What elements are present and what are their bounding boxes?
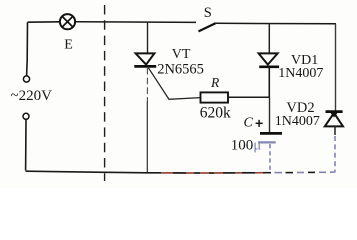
capacitor C plates (258, 133, 282, 142)
wire resistor to node (228, 96, 270, 98)
wire bottom left solid (26, 171, 161, 173)
wire VD1 branch from top (268, 24, 270, 53)
wire VD2 to bottom (dashed purple) (334, 136, 336, 172)
wire left column lower (25, 119, 27, 170)
dashed boundary line (104, 5, 106, 181)
svg-text:2N6565: 2N6565 (157, 61, 204, 77)
svg-text:C: C (244, 116, 254, 131)
wire lamp to switch (76, 21, 196, 24)
wire top-left horizontal to lamp (28, 21, 60, 23)
svg-text:E: E (64, 38, 73, 53)
label + (256, 120, 263, 127)
diode VD1 (259, 53, 280, 66)
wire VD2 lead lower solid (334, 126, 336, 135)
wire node down to capacitor (269, 97, 271, 132)
svg-text:620k: 620k (200, 105, 231, 122)
thyristor VT (134, 53, 156, 66)
svg-text:~220V: ~220V (11, 88, 53, 104)
switch S blade (199, 23, 216, 31)
wire left column upper (26, 22, 29, 75)
wire VT anode branch (147, 22, 149, 53)
wire VT cathode down (146, 101, 148, 173)
wire bottom right dashed purple/black (263, 171, 336, 174)
diode VD2 (325, 112, 343, 127)
svg-text:VT: VT (172, 47, 191, 62)
wire VT cathode down (upper faded) (146, 68, 148, 101)
terminal upper (23, 76, 29, 82)
wire VT gate diagonal (148, 68, 200, 100)
wire capacitor to bottom (dashed purple) (269, 144, 271, 172)
wire switch to top-right corner (215, 22, 336, 25)
svg-text:S: S (204, 5, 212, 21)
lamp E (60, 14, 75, 29)
svg-text:1N4007: 1N4007 (278, 66, 323, 81)
wire right column down to VD2 (335, 24, 337, 111)
svg-text:R: R (210, 75, 220, 90)
resistor R (201, 92, 229, 102)
terminal lower (23, 113, 29, 119)
wire VD1 cathode to node (268, 68, 270, 97)
wire bottom middle red/black segments (161, 172, 263, 174)
svg-text:1N4007: 1N4007 (275, 114, 320, 129)
svg-text:100μ: 100μ (231, 138, 262, 154)
